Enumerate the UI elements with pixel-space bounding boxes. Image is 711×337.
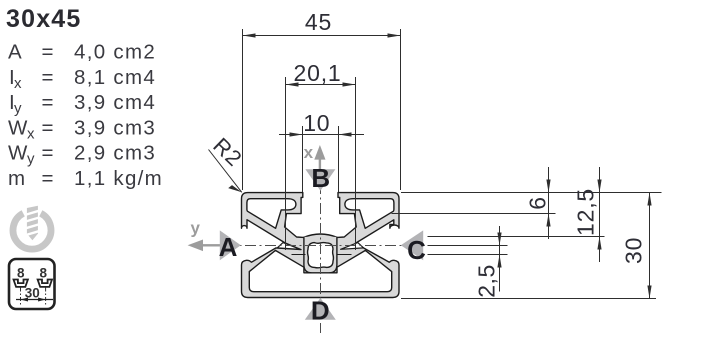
icon slot symbol left bbox=[14, 280, 53, 287]
slot sliver left bbox=[277, 243, 300, 250]
dimension 30 bbox=[649, 193, 651, 299]
face marker A bbox=[220, 230, 241, 260]
icon dimension line 30 bbox=[16, 299, 53, 301]
svg-text:12,5: 12,5 bbox=[573, 188, 599, 236]
svg-text:m: m bbox=[8, 167, 26, 190]
y axis label and arrow bbox=[188, 240, 232, 252]
bottom cavity bbox=[249, 250, 391, 291]
svg-text:x: x bbox=[27, 125, 36, 142]
svg-text:=: = bbox=[42, 116, 55, 139]
svg-text:C: C bbox=[407, 235, 426, 265]
slot spacing icon box bbox=[9, 259, 55, 309]
svg-text:R2: R2 bbox=[208, 133, 247, 172]
x axis label and arrow bbox=[314, 145, 325, 183]
svg-text:W: W bbox=[8, 142, 29, 165]
svg-text:B: B bbox=[311, 163, 330, 193]
center line vertical (x axis) bbox=[320, 183, 322, 333]
face marker D bbox=[305, 298, 336, 320]
dimension 45 bbox=[243, 29, 401, 190]
spec table bbox=[8, 41, 163, 191]
svg-text:=: = bbox=[42, 91, 55, 114]
hole center mark right bbox=[337, 254, 352, 256]
svg-text:10: 10 bbox=[303, 110, 330, 136]
screw icon ring bbox=[13, 213, 51, 249]
svg-text:W: W bbox=[8, 116, 29, 139]
extension line hole axis bbox=[428, 254, 508, 256]
svg-text:8: 8 bbox=[17, 266, 25, 281]
radius callout R2 bbox=[209, 150, 242, 193]
center line horizontal (y axis) bbox=[205, 245, 424, 247]
svg-text:y: y bbox=[14, 100, 23, 117]
extension line section axis bbox=[428, 245, 508, 247]
hole center mark left bbox=[292, 254, 352, 256]
svg-text:=: = bbox=[42, 167, 55, 190]
dimension 6 bbox=[548, 167, 550, 239]
svg-text:2,5: 2,5 bbox=[474, 264, 500, 297]
slot sliver right bbox=[341, 243, 364, 250]
svg-text:3,9 cm3: 3,9 cm3 bbox=[74, 116, 156, 139]
extension line slot axis 12,5 bbox=[428, 236, 605, 238]
svg-text:=: = bbox=[42, 41, 55, 64]
profile cross-section body bbox=[242, 193, 400, 298]
icon slot symbol right bbox=[38, 280, 52, 287]
extension line bottom face bbox=[401, 298, 656, 300]
icon dimension arrows bbox=[21, 298, 46, 302]
face marker C bbox=[401, 230, 423, 260]
svg-text:20,1: 20,1 bbox=[294, 60, 342, 86]
extension line top face bbox=[401, 192, 662, 194]
svg-text:3,9 cm4: 3,9 cm4 bbox=[74, 91, 156, 114]
svg-text:x: x bbox=[14, 75, 23, 92]
svg-text:6: 6 bbox=[525, 197, 551, 210]
svg-text:x: x bbox=[304, 143, 314, 162]
extension line chamber depth 6 bbox=[392, 213, 556, 215]
svg-text:45: 45 bbox=[305, 9, 332, 35]
svg-text:D: D bbox=[311, 296, 330, 326]
screw icon thread stripes bbox=[26, 211, 39, 235]
svg-text:30: 30 bbox=[621, 237, 647, 264]
svg-text:2,9 cm3: 2,9 cm3 bbox=[74, 142, 156, 165]
screw boss bbox=[304, 237, 337, 273]
svg-text:1,1 kg/m: 1,1 kg/m bbox=[74, 167, 163, 190]
svg-text:4,0 cm2: 4,0 cm2 bbox=[74, 41, 156, 64]
svg-text:=: = bbox=[42, 66, 55, 89]
screw hole bbox=[308, 243, 334, 268]
svg-text:8: 8 bbox=[39, 266, 47, 281]
dimension 2,5 bbox=[499, 226, 501, 292]
dimension 10 bbox=[279, 126, 364, 192]
svg-text:30x45: 30x45 bbox=[6, 5, 82, 33]
dimension 20,1 bbox=[286, 77, 356, 250]
svg-text:y: y bbox=[27, 151, 36, 168]
svg-text:A: A bbox=[219, 232, 238, 262]
icon centerlines bbox=[21, 288, 46, 305]
svg-text:y: y bbox=[190, 218, 200, 237]
face marker B bbox=[305, 169, 335, 191]
svg-text:A: A bbox=[8, 41, 23, 64]
chamber cavity right bbox=[345, 199, 394, 229]
dimension 12,5 bbox=[599, 167, 601, 262]
chamber cavity left bbox=[247, 199, 296, 229]
screw icon screw body bbox=[27, 206, 38, 241]
svg-text:=: = bbox=[42, 142, 55, 165]
svg-text:8,1 cm4: 8,1 cm4 bbox=[74, 66, 156, 89]
